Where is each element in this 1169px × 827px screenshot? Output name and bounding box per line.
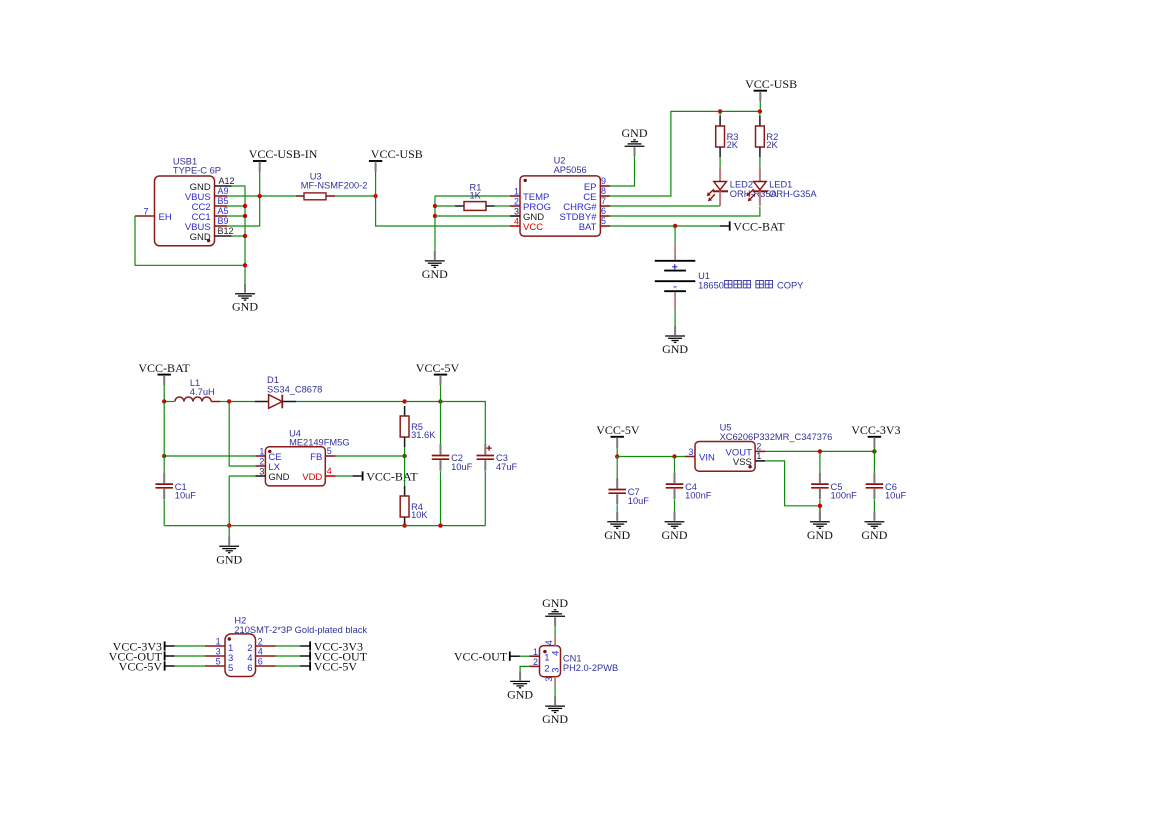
junction GND rail <box>438 523 442 527</box>
wire EP up to ground flag <box>610 156 635 186</box>
svg-text:FB: FB <box>310 452 322 463</box>
wire FB node to R4 <box>404 456 406 486</box>
svg-text:BAT: BAT <box>579 222 597 233</box>
resistor R2 2K <box>756 116 779 157</box>
svg-text:5: 5 <box>601 216 606 226</box>
junction FB node <box>402 454 406 458</box>
junction VCC-3V3 rail <box>872 449 876 453</box>
junction GND <box>243 263 247 267</box>
wire VCC-5V stub down <box>440 385 442 402</box>
svg-text:7: 7 <box>601 196 606 206</box>
wire GND column from A12 <box>232 186 245 268</box>
pin 1 TEMP of U2 <box>510 195 520 197</box>
svg-text:GND: GND <box>232 300 258 314</box>
svg-text:VCC: VCC <box>523 222 543 233</box>
capacitor C1 <box>155 473 196 501</box>
H2 pin1 mark dot <box>228 637 231 640</box>
pin 5 BAT of U2 <box>600 225 611 227</box>
wire CC1 to GND column <box>227 215 245 217</box>
battery U1 18650 <box>655 226 696 310</box>
wire VBUS A9 to fuse <box>227 195 296 197</box>
wire LX node to D1 <box>229 401 255 403</box>
junction VCC-BAT <box>673 224 677 228</box>
svg-text:6: 6 <box>258 657 263 667</box>
pin 2 of CN1 <box>529 665 539 667</box>
USB1 pin1 mark dot <box>207 239 210 242</box>
resistor R3 2K <box>716 116 739 157</box>
svg-text:EH: EH <box>159 212 172 223</box>
wire C3 bottom to rail <box>484 471 486 525</box>
wire U4 GND to bottom rail <box>229 475 255 477</box>
junction VCC-5V rail <box>438 399 442 403</box>
svg-text:100nF: 100nF <box>831 491 858 501</box>
wire GND column lower <box>244 268 246 283</box>
svg-text:GND: GND <box>861 528 887 542</box>
wire TEMP/PROG/GND column to ground <box>434 196 436 251</box>
wire battery minus to ground <box>674 310 676 326</box>
pin 1 VSS of U5 <box>755 460 765 462</box>
led LED2 ORH-R35A <box>707 167 778 206</box>
junction VSS ground node <box>818 504 822 508</box>
junction GND rail <box>227 523 231 527</box>
U2 pin1 mark dot <box>524 179 527 182</box>
net port VCC-BAT (charger) <box>720 219 786 233</box>
svg-text:XC6206P332MR_C347376: XC6206P332MR_C347376 <box>720 432 833 442</box>
wire rail to R3 <box>719 111 721 116</box>
svg-text:1: 1 <box>533 647 538 657</box>
svg-text:1K: 1K <box>470 191 482 201</box>
pin 4 VDD of U4 <box>325 475 335 477</box>
svg-text:3: 3 <box>550 667 561 672</box>
svg-text:GND: GND <box>422 267 448 281</box>
wire VCC-5V stub to VIN row <box>616 447 618 457</box>
svg-text:VCC-BAT: VCC-BAT <box>366 469 418 483</box>
wire CE up to VCC-USB rail <box>610 111 760 196</box>
svg-text:18650: 18650 <box>698 280 724 290</box>
svg-text:GND: GND <box>542 712 568 726</box>
svg-text:5: 5 <box>216 657 221 667</box>
wire VCC-3V3 right <box>276 645 301 647</box>
wire C6 bottom <box>873 500 875 512</box>
svg-text:8: 8 <box>601 186 606 196</box>
svg-text:4: 4 <box>514 217 519 227</box>
svg-text:4: 4 <box>327 466 332 476</box>
power flag VCC-BAT (boost input) <box>138 361 190 385</box>
resistor R4 10K <box>400 486 428 527</box>
junction VCC-3V3 rail <box>818 449 822 453</box>
wire C7 to gnd <box>616 505 618 512</box>
svg-text:2: 2 <box>259 457 264 467</box>
U4 pin1 mark dot <box>268 450 271 453</box>
svg-text:MF-NSMF200-2: MF-NSMF200-2 <box>301 181 368 191</box>
wire R3 to LED2 <box>719 157 721 167</box>
svg-text:SS34_C8678: SS34_C8678 <box>267 384 322 394</box>
resistor R1 1K <box>455 202 495 211</box>
svg-text:1: 1 <box>514 187 519 197</box>
diode D1 SS34 <box>255 395 296 409</box>
svg-text:VCC-5V: VCC-5V <box>314 659 358 673</box>
power flag VCC-3V3 <box>851 423 900 447</box>
svg-text:VCC-5V: VCC-5V <box>119 659 163 673</box>
wire BAT to VCC-BAT <box>610 225 720 227</box>
svg-text:GND: GND <box>662 342 688 356</box>
svg-text:GND: GND <box>604 528 630 542</box>
wire VCC-USB stub down <box>375 171 377 196</box>
junction VCC-5V node <box>615 454 619 458</box>
wire VCC-BAT stub down <box>163 385 165 402</box>
wire C5 bottom <box>819 500 821 506</box>
pin 3 of H2 <box>205 655 225 657</box>
svg-text:7: 7 <box>143 207 148 217</box>
svg-text:2K: 2K <box>766 140 778 150</box>
svg-text:3: 3 <box>259 467 264 477</box>
ground flag left of U2 <box>422 251 448 281</box>
pin 6 STDBY# of U2 <box>600 215 611 217</box>
power flag VCC-5V (boost output) <box>416 361 460 385</box>
wire rail R5 to C2 <box>405 401 441 403</box>
svg-text:3: 3 <box>688 447 693 457</box>
svg-text:210SMT-2*3P Gold-plated black: 210SMT-2*3P Gold-plated black <box>234 625 367 635</box>
junction GND node <box>433 214 437 218</box>
svg-text:VCC-OUT: VCC-OUT <box>454 650 508 664</box>
pin 5 FB of U4 <box>325 455 335 457</box>
pin VBUS A9 of USB1 <box>215 195 228 197</box>
wire pin2 to ground <box>520 666 529 671</box>
svg-text:4: 4 <box>550 651 561 656</box>
svg-text:GND: GND <box>216 552 242 566</box>
wire R1 left <box>435 205 455 207</box>
svg-text:B12: B12 <box>218 226 234 236</box>
svg-text:VCC-BAT: VCC-BAT <box>733 219 785 233</box>
junction GND <box>243 204 247 208</box>
connector USB1 TYPE-C 6P <box>155 176 215 246</box>
pin 4 of CN1 (top) <box>554 636 556 646</box>
net port VCC-3V3 (H2 left) <box>113 639 175 653</box>
svg-text:GND: GND <box>542 596 568 610</box>
svg-text:3: 3 <box>514 207 519 217</box>
svg-text:ME2149FM5G: ME2149FM5G <box>289 438 349 448</box>
wire C2 bottom to rail <box>440 471 442 525</box>
svg-text:VCC-BAT: VCC-BAT <box>138 361 190 375</box>
wire VDD to VCC-BAT port <box>336 475 353 477</box>
junction GND <box>243 234 247 238</box>
wire top rail VCC-BAT to L1 <box>164 401 174 403</box>
wire bottom rail <box>164 525 485 527</box>
ground flag above CN1 <box>542 596 568 626</box>
pin 3 of CN1 (bottom) <box>554 677 556 686</box>
wire left column VCC-BAT <box>163 402 165 474</box>
svg-text:1: 1 <box>544 653 549 664</box>
pin 1 CE of U4 <box>255 455 265 457</box>
wire VCC-OUT right <box>276 655 301 657</box>
wire R4 bottom to gnd rail <box>404 526 406 527</box>
ground flag below CN1 <box>542 696 568 726</box>
svg-text:9: 9 <box>601 176 606 186</box>
wire VCC-5V right <box>276 665 301 667</box>
wire VCC-3V3 stub <box>873 447 875 451</box>
wire CHRG# to LED2 <box>610 205 720 207</box>
pin 4 VCC of U2 <box>510 225 520 227</box>
ground flag below U4 <box>216 536 242 566</box>
label USB1 reference/value <box>173 156 221 175</box>
svg-text:VDD: VDD <box>302 472 322 483</box>
label U4 reference/value <box>289 428 349 447</box>
svg-text:6: 6 <box>601 206 606 216</box>
svg-text:3: 3 <box>544 677 554 682</box>
svg-text:1: 1 <box>756 451 761 461</box>
svg-text:1: 1 <box>259 447 264 457</box>
svg-text:VSS: VSS <box>733 457 752 468</box>
ic U4 ME2149FM5G <box>265 447 325 486</box>
header H2 210SMT-2*3P <box>225 634 256 677</box>
svg-text:VCC-USB: VCC-USB <box>371 147 423 161</box>
wire C5 top <box>819 451 821 472</box>
svg-text:B5: B5 <box>218 196 229 206</box>
wire VBUS B9 jog up to VCC-USB-IN column <box>227 196 260 226</box>
svg-text:10uF: 10uF <box>451 462 473 472</box>
svg-text:VCC-USB: VCC-USB <box>745 77 797 91</box>
junction LX node <box>227 399 231 403</box>
wire VCC-USB flag stub down <box>759 101 761 111</box>
wire L1 to LX node <box>220 401 229 403</box>
svg-text:2: 2 <box>544 663 549 674</box>
inductor L1 4.7uH <box>175 397 220 402</box>
junction VCC-USB-IN <box>258 194 262 198</box>
svg-text:AP5056: AP5056 <box>554 165 587 175</box>
pin CC1 A5 of USB1 <box>215 215 228 217</box>
pin 1 of H2 <box>205 645 225 647</box>
ground flag below C4 <box>662 512 688 542</box>
svg-text:47uF: 47uF <box>496 462 518 472</box>
pin 3 VIN of U5 <box>685 456 695 458</box>
svg-text:10uF: 10uF <box>628 496 650 506</box>
wire fuse output to VCC-USB node <box>335 195 376 197</box>
wire VCC-5V left <box>175 665 205 667</box>
svg-text:A12: A12 <box>219 176 235 186</box>
capacitor C3 <box>477 444 518 472</box>
ic U2 AP5056 <box>520 176 600 236</box>
wire rail C2 to C3 <box>441 402 486 445</box>
svg-text:5: 5 <box>327 446 332 456</box>
wire VOUT rail <box>765 450 874 452</box>
ground flag above EP <box>622 126 648 156</box>
svg-text:ORH-G35A: ORH-G35A <box>769 189 817 199</box>
wire R5 bottom to FB node <box>404 447 406 456</box>
svg-text:VCC-5V: VCC-5V <box>596 423 640 437</box>
net port VCC-OUT (H2 right) <box>300 649 368 663</box>
wire VCC-OUT to pin1 <box>520 655 530 657</box>
wire C2 top <box>440 402 442 445</box>
svg-text:3: 3 <box>216 647 221 657</box>
net port VCC-5V (H2 left) <box>119 659 175 673</box>
pin 9 EP of U2 <box>600 185 611 187</box>
svg-text:VCC-3V3: VCC-3V3 <box>851 423 900 437</box>
wire C1 bottom to gnd rail <box>163 500 165 526</box>
svg-text:2K: 2K <box>727 140 739 150</box>
label U2 reference/value <box>554 156 587 175</box>
pin 5 of H2 <box>205 665 225 667</box>
junction VCC-USB rail <box>758 109 762 113</box>
svg-text:VCC-5V: VCC-5V <box>416 361 460 375</box>
svg-text:4.7uH: 4.7uH <box>190 387 215 397</box>
U5 pin mark dot <box>748 465 751 468</box>
net port VCC-3V3 (H2 right) <box>300 639 363 653</box>
wire R2 to LED1 <box>759 157 761 167</box>
junction PROG node <box>433 204 437 208</box>
svg-text:4: 4 <box>544 640 554 645</box>
pin 2 PROG of U2 <box>510 205 520 207</box>
pin CC2 B5 of USB1 <box>215 205 228 207</box>
fuse U3 MF-NSMF200-2 <box>296 193 335 200</box>
junction VCC-USB rail <box>718 109 722 113</box>
ground flag below C7 <box>604 512 630 542</box>
wire VSS to C5 ground <box>765 461 818 506</box>
wire VCC-USB-IN stub <box>259 171 261 196</box>
wire C4 top <box>674 457 676 473</box>
wire VIN row <box>617 456 685 458</box>
ground flag at CN1 pin2 <box>507 671 533 701</box>
wire C4 to gnd <box>674 500 676 512</box>
C5 ground stub <box>819 506 821 521</box>
pin 2 of H2 <box>256 645 276 647</box>
wire rail to R2 <box>759 111 761 116</box>
svg-text:COPY: COPY <box>777 280 803 290</box>
net port VCC-5V (H2 right) <box>300 659 357 673</box>
wire VCC-3V3 left <box>175 645 205 647</box>
svg-text:4: 4 <box>258 647 263 657</box>
net port VCC-BAT (VDD) <box>353 469 419 483</box>
pin 8 CE of U2 <box>600 195 611 197</box>
pin GND A12 of USB1 <box>215 185 232 187</box>
junction VCC-5V rail <box>402 399 406 403</box>
C3 polarity + <box>487 446 492 451</box>
svg-text:2: 2 <box>514 197 519 207</box>
capacitor C4 <box>666 473 712 501</box>
pin 4 of H2 <box>256 655 276 657</box>
svg-text:GND: GND <box>268 472 289 483</box>
wire VCC-OUT left <box>175 655 205 657</box>
wire C6 top <box>873 451 875 472</box>
svg-text:2: 2 <box>258 637 263 647</box>
wire STDBY# to LED1 <box>610 207 760 217</box>
junction VCC-5V node <box>672 454 676 458</box>
wire B12 to GND column <box>232 235 245 237</box>
svg-text:A5: A5 <box>218 206 229 216</box>
ground flag below C6 <box>861 512 887 542</box>
capacitor C5 <box>811 473 857 501</box>
svg-text:PH2.0-2PWB: PH2.0-2PWB <box>563 663 618 673</box>
ground flag below USB1 <box>232 284 258 314</box>
capacitor C6 <box>866 473 907 501</box>
svg-text:31.6K: 31.6K <box>411 430 436 440</box>
pin 2 VOUT of U5 <box>755 450 765 452</box>
svg-text:10uF: 10uF <box>885 491 907 501</box>
power flag VCC-USB (top right) <box>745 77 797 101</box>
wire pin3 to ground <box>554 686 556 696</box>
junction GND rail <box>402 523 406 527</box>
wire R1 right to PROG <box>495 205 511 207</box>
resistor R5 31.6K <box>400 406 436 447</box>
svg-text:GND: GND <box>190 232 211 243</box>
ground flag below C5 <box>807 512 833 542</box>
svg-text:10K: 10K <box>411 510 428 520</box>
wire D1 to VCC-5V rail <box>296 401 405 403</box>
wire FB to divider <box>336 455 405 457</box>
power flag VCC-USB-IN <box>249 147 318 171</box>
svg-text:B9: B9 <box>218 216 229 226</box>
wire C7 chain <box>616 457 618 479</box>
label CN1 reference/value <box>563 654 618 673</box>
svg-text:VIN: VIN <box>699 453 715 464</box>
svg-text:A9: A9 <box>218 186 229 196</box>
svg-text:10uF: 10uF <box>175 491 197 501</box>
pin 1 of CN1 <box>529 655 539 657</box>
label U5 reference/value <box>720 423 833 442</box>
junction VCC-BAT column <box>162 454 166 458</box>
junction GND <box>243 214 247 218</box>
net port VCC-OUT (CN1) <box>454 650 520 664</box>
capacitor C2 <box>432 444 473 472</box>
power flag VCC-5V (LDO input) <box>596 423 640 447</box>
svg-text:VCC-USB-IN: VCC-USB-IN <box>249 147 318 161</box>
pin VBUS B9 of USB1 <box>215 225 228 227</box>
wire GND pin3 of U2 <box>435 215 510 217</box>
wire VCC-USB down and right to U2 VCC pin <box>376 196 510 226</box>
net port VCC-OUT (H2 left) <box>109 649 175 663</box>
capacitor C7 <box>608 478 649 506</box>
pin 3 GND of U4 <box>255 475 265 477</box>
junction VCC-BAT rail <box>162 399 166 403</box>
svg-text:2: 2 <box>756 442 761 452</box>
ground flag below battery <box>662 326 688 356</box>
svg-text:TYPE-C 6P: TYPE-C 6P <box>173 166 221 176</box>
CN1 pin1 mark dot <box>543 650 546 653</box>
svg-text:5: 5 <box>228 663 233 674</box>
wire CE to left column <box>164 455 255 457</box>
svg-text:GND: GND <box>622 126 648 140</box>
pin EH (7) of USB1 <box>135 215 155 217</box>
svg-text:1: 1 <box>216 637 221 647</box>
svg-text:6: 6 <box>247 663 252 674</box>
power flag VCC-USB (fuse output) <box>369 147 423 171</box>
wire gnd stub <box>228 526 230 537</box>
connector CN1 PH2.0-2PWB <box>540 646 561 677</box>
pin 7 CHRG# of U2 <box>600 205 611 207</box>
junction VCC-USB <box>373 194 377 198</box>
svg-text:2: 2 <box>533 657 538 667</box>
wire LX down from rail <box>229 402 255 467</box>
svg-text:GND: GND <box>662 528 688 542</box>
svg-text:100nF: 100nF <box>685 491 712 501</box>
pin 3 GND of U2 <box>510 215 520 217</box>
wire EH to GND column <box>135 216 245 265</box>
pin 6 of H2 <box>256 665 276 667</box>
led LED1 ORH-G35A <box>746 167 817 206</box>
wire CN1 pin4 to top ground <box>554 626 556 636</box>
wire CC2 to GND column <box>227 205 245 207</box>
pin 2 LX of U4 <box>255 465 265 467</box>
svg-text:GND: GND <box>507 687 533 701</box>
ic U5 XC6206P332MR <box>695 442 755 472</box>
wire TEMP pin connection <box>435 195 510 197</box>
pin GND B12 of USB1 <box>215 235 232 237</box>
label H2 reference/value <box>234 616 367 635</box>
svg-text:GND: GND <box>807 528 833 542</box>
